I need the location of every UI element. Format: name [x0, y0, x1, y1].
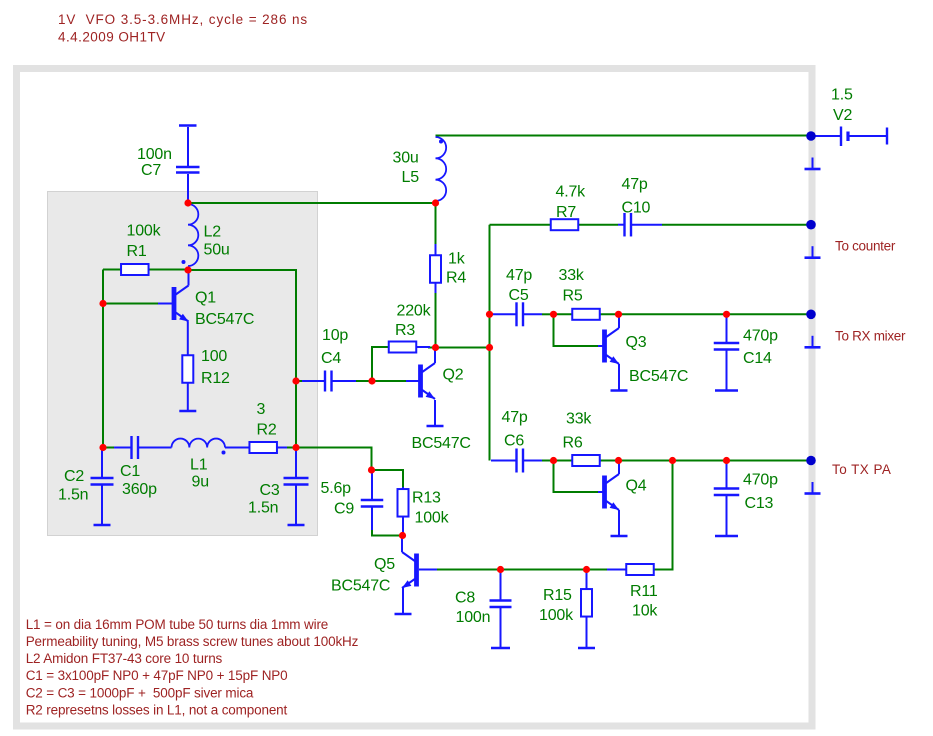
wire C7 node down is inductor; wire right from dot 188,270 to x296 and down to LC rail [191, 270, 296, 445]
node counter port [806, 220, 816, 230]
wire R2 right to C3 node [287, 447, 296, 449]
value label 47p [506, 267, 532, 284]
transistor Q4 [605, 474, 620, 510]
svg-text:10k: 10k [632, 603, 658, 620]
port marker below V2 supply port [805, 158, 821, 170]
wire R1 right to L2 bottom node [148, 269, 188, 271]
resistor R2 [225, 442, 287, 453]
svg-text:To RX mixer: To RX mixer [835, 329, 906, 344]
resistor R5 [572, 309, 601, 320]
wire C9 top node right to R13 corner [372, 470, 404, 487]
node C8 tap [497, 566, 504, 573]
value label V2 [833, 107, 852, 124]
outer frame border [17, 69, 813, 727]
svg-text:100k: 100k [415, 510, 450, 527]
value label 360p [122, 481, 157, 498]
value label 470p [743, 472, 778, 489]
node Q2 base / R3 junction [368, 377, 375, 384]
wire Q4 collector up [618, 462, 620, 474]
capacitor C2 [91, 449, 114, 525]
wire TX line to port [619, 460, 809, 462]
value label C10 [622, 200, 651, 217]
node C5 tap [486, 311, 493, 318]
svg-text:47p: 47p [622, 176, 648, 193]
wire Q4 base drive [554, 461, 599, 493]
svg-text:C8: C8 [455, 590, 475, 607]
value label 100k [127, 223, 162, 240]
wire LC bottom rail C2 to C1 [103, 447, 114, 449]
inductor L5 [436, 137, 447, 201]
svg-text:47p: 47p [502, 409, 528, 426]
ground below C13 [715, 534, 738, 536]
resistor R3 [389, 342, 430, 353]
value label L2 [204, 224, 222, 241]
wire Q4 base lead [598, 491, 603, 493]
port marker below RX mixer port [805, 336, 821, 348]
svg-text:470p: 470p [743, 328, 778, 345]
wire R5 node to R5 box [554, 313, 573, 315]
ground below Q3 [611, 364, 628, 391]
svg-text:R5: R5 [563, 288, 583, 305]
value label 470p [743, 328, 778, 345]
wire Q5 base lead [419, 569, 437, 571]
transistor Q2 [421, 363, 436, 399]
value label R3 [395, 322, 415, 339]
svg-text:C4: C4 [321, 350, 341, 367]
node C13 tap [723, 457, 730, 464]
capacitor C1 [114, 436, 152, 459]
svg-text:To counter: To counter [835, 239, 896, 254]
svg-text:L2: L2 [204, 224, 222, 241]
capacitor C5 [491, 302, 542, 326]
value label BC547C [195, 311, 254, 328]
svg-text:C10: C10 [622, 200, 651, 217]
transistor Q5 [402, 552, 417, 588]
wire R11 left to Q5 base rail [607, 569, 627, 571]
value label 4.7k [556, 184, 587, 201]
wire Q2 collector up [434, 350, 436, 364]
svg-text:100n: 100n [137, 146, 172, 163]
value label Q5 [374, 556, 395, 573]
wire C9 bottom to Q5 collector node [372, 530, 400, 536]
wire R4 top from L5 node [435, 205, 437, 244]
svg-text:BC547C: BC547C [629, 368, 688, 385]
battery V2 [814, 127, 887, 147]
ground below R12 [179, 383, 196, 411]
svg-text:L1 = on dia 16mm POM tube 50 t: L1 = on dia 16mm POM tube 50 turns dia 1… [26, 617, 328, 632]
value label 5.6p [321, 480, 352, 497]
node Q2 collector / R3 / R4 junction [432, 344, 439, 351]
wire RX line to port [619, 313, 809, 315]
resistor R4 [430, 244, 441, 293]
svg-text:R2 represetns losses in L1, no: R2 represetns losses in L1, not a compon… [26, 702, 288, 717]
value label Q3 [626, 334, 647, 351]
note line 6 [26, 702, 288, 717]
capacitor C3 [284, 449, 309, 525]
svg-text:To TX PA: To TX PA [832, 462, 891, 477]
value label 47p [502, 409, 528, 426]
title line 1 [58, 12, 308, 27]
node C14 tap [723, 311, 730, 318]
svg-text:R1: R1 [127, 243, 147, 260]
value label R4 [446, 270, 466, 287]
node R15 tap [583, 566, 590, 573]
value label R11 [630, 583, 658, 600]
note line 2 [26, 634, 359, 649]
resistor R6 [572, 455, 601, 466]
svg-text:50u: 50u [204, 242, 230, 259]
svg-text:220k: 220k [397, 303, 432, 320]
svg-text:9u: 9u [192, 474, 209, 491]
svg-text:1.5n: 1.5n [248, 500, 278, 517]
value label 100n [137, 146, 172, 163]
node C6 / R6 / Q4 base junction [550, 457, 557, 464]
svg-text:100k: 100k [127, 223, 162, 240]
value label 3 [257, 401, 266, 418]
value label C7 [141, 162, 161, 179]
transistor Q1 [174, 286, 189, 322]
svg-text:1k: 1k [448, 251, 466, 268]
svg-text:Permeability tuning, M5 brass: Permeability tuning, M5 brass screw tune… [26, 634, 359, 649]
svg-text:1V VFO 3.5-3.6MHz, cycle = 28: 1V VFO 3.5-3.6MHz, cycle = 286 ns [58, 12, 308, 27]
svg-text:Q5: Q5 [374, 556, 395, 573]
resistor R7 [551, 219, 579, 230]
wire C3 node to right and down to C9 node [296, 448, 372, 469]
svg-text:1.5: 1.5 [831, 87, 853, 104]
svg-text:33k: 33k [559, 267, 585, 284]
value label C5 [509, 287, 529, 304]
value label R5 [563, 288, 583, 305]
ground below R15 [578, 646, 595, 648]
wire C1 to L1 [145, 447, 172, 449]
transistor Q3 [605, 328, 620, 364]
value label 10p [322, 327, 348, 344]
value label C8 [455, 590, 475, 607]
note line 1 [26, 617, 328, 632]
svg-text:1.5n: 1.5n [58, 487, 88, 504]
resistor R11 [626, 564, 654, 575]
wire C4 left from x296 rail [296, 380, 302, 382]
capacitor C9 [361, 472, 384, 531]
wire Q5 collector up [401, 537, 403, 552]
svg-text:4.4.2009 OH1TV: 4.4.2009 OH1TV [58, 30, 166, 45]
svg-text:Q3: Q3 [626, 334, 647, 351]
value label 47p [622, 176, 648, 193]
wire R4 bottom to collector node [435, 293, 437, 345]
svg-text:R6: R6 [563, 435, 583, 452]
wire R6 out to TX line [601, 460, 619, 462]
value label C4 [321, 350, 341, 367]
value label Q2 [443, 367, 464, 384]
node V2 supply port [806, 131, 816, 141]
svg-text:C5: C5 [509, 287, 529, 304]
value label C1 [120, 463, 140, 480]
svg-text:L5: L5 [402, 169, 420, 186]
wire C5 right to R5 node [542, 313, 554, 315]
ground below C8 [491, 646, 510, 648]
wire base node to Q2 base [372, 380, 406, 382]
svg-text:3: 3 [257, 401, 266, 418]
svg-text:100k: 100k [539, 607, 574, 624]
node L2 bottom / R1 / Q1 collector junction [184, 266, 191, 273]
node R6 / Q4 collector junction [615, 457, 622, 464]
value label C2 [64, 468, 84, 485]
svg-text:C1: C1 [120, 463, 140, 480]
node R13 / C9 / Q5 collector junction [399, 532, 406, 539]
svg-text:L1: L1 [190, 457, 208, 474]
wire Q3 collector up [618, 316, 620, 328]
wire distribution vertical x489.5 [489, 225, 491, 461]
ground below Q5 [395, 588, 412, 614]
wire Q1 base lead [158, 303, 172, 305]
svg-text:BC547C: BC547C [412, 435, 471, 452]
port label To RX mixer [835, 329, 906, 344]
note line 4 [26, 668, 288, 683]
ground below Q2 [427, 424, 444, 426]
resistor R15 [581, 572, 592, 649]
svg-text:R13: R13 [412, 490, 441, 507]
ground below C3 [288, 524, 305, 525]
value label 10k [632, 603, 658, 620]
wire Q3 base lead [598, 345, 603, 347]
resistor R1 [121, 264, 149, 275]
svg-text:100: 100 [201, 348, 227, 365]
svg-text:47p: 47p [506, 267, 532, 284]
wire R6 node to R6 box [554, 460, 573, 462]
svg-text:R12: R12 [201, 370, 230, 387]
svg-text:R3: R3 [395, 322, 415, 339]
value label R6 [563, 435, 583, 452]
wire L5 bottom node to C7 node [191, 202, 433, 204]
value label Q4 [626, 478, 647, 495]
ground below Q4 [611, 510, 628, 536]
svg-text:V2: V2 [833, 107, 852, 124]
value label R15 [543, 587, 572, 604]
node R11 feed tap [669, 457, 676, 464]
svg-text:C13: C13 [745, 495, 774, 512]
node C5 / R5 / Q3 base junction [550, 311, 557, 318]
value label BC547C [412, 435, 471, 452]
value label C9 [334, 501, 354, 518]
svg-text:L2 Amidon FT37-43 core 10 turn: L2 Amidon FT37-43 core 10 turns [26, 651, 223, 666]
resistor R13 [398, 487, 409, 534]
node C3 / R2 junction [292, 444, 299, 451]
node TX PA port [806, 456, 816, 466]
value label R12 [201, 370, 230, 387]
svg-text:100n: 100n [456, 609, 491, 626]
ground below C2 [94, 524, 111, 525]
wire R5 out to RX line [601, 313, 619, 315]
value label 100n [456, 609, 491, 626]
value label C14 [743, 350, 772, 367]
wire Q1 collector up [188, 272, 190, 286]
svg-text:R15: R15 [543, 587, 572, 604]
wire R3 left lead down to base node [372, 347, 389, 379]
value label 220k [397, 303, 432, 320]
resistor R12 [182, 322, 193, 384]
svg-text:BC547C: BC547C [195, 311, 254, 328]
node L5 bottom junction [432, 199, 439, 206]
value label C6 [504, 433, 524, 450]
value label R1 [127, 243, 147, 260]
value label 1.5n [248, 500, 278, 517]
svg-text:C3: C3 [260, 482, 280, 499]
title line 2 [58, 30, 166, 45]
value label C3 [260, 482, 280, 499]
ground below C14 [715, 389, 738, 391]
capacitor C13 [714, 462, 740, 536]
value label 50u [204, 242, 230, 259]
svg-text:Q2: Q2 [443, 367, 464, 384]
svg-text:30u: 30u [393, 150, 419, 167]
value label 100k [539, 607, 574, 624]
port marker below counter port [805, 246, 821, 258]
value label 33k [559, 267, 585, 284]
svg-text:C2 = C3 = 1000pF + 500pF sive: C2 = C3 = 1000pF + 500pF siver mica [26, 685, 254, 700]
svg-text:Q1: Q1 [195, 290, 216, 307]
svg-text:33k: 33k [566, 411, 592, 428]
node C7/L2/V-rail junction [184, 199, 191, 206]
wire C10 to counter port [662, 224, 808, 226]
value label L5 [402, 169, 420, 186]
value label C13 [745, 495, 774, 512]
value label R2 [257, 422, 277, 439]
value label 100k [415, 510, 450, 527]
svg-text:C9: C9 [334, 501, 354, 518]
svg-text:C6: C6 [504, 433, 524, 450]
wire collector node right to distribution rail [436, 347, 490, 349]
svg-text:R2: R2 [257, 422, 277, 439]
wire R7 feed [490, 224, 552, 226]
port label To counter [835, 239, 896, 254]
wire C4 right to base node Q2 [356, 380, 372, 382]
value label BC547C [629, 368, 688, 385]
wire Q1 base from left rail [104, 303, 158, 305]
value label Q1 [195, 290, 216, 307]
pin terminal above C7 [179, 124, 197, 126]
svg-text:R11: R11 [630, 583, 658, 600]
wire R1 left horizontal [103, 269, 122, 271]
oscillator shaded box [48, 192, 318, 536]
wire R3 right to collector node [428, 347, 436, 349]
note line 3 [26, 651, 223, 666]
svg-text:C7: C7 [141, 162, 161, 179]
value label 100 [201, 348, 227, 365]
wire Q5 base rail [437, 569, 607, 571]
svg-text:C2: C2 [64, 468, 84, 485]
node C9 / R13 top junction [368, 466, 375, 473]
svg-text:Q4: Q4 [626, 478, 647, 495]
note line 5 [26, 685, 254, 700]
svg-text:BC547C: BC547C [331, 578, 390, 595]
wire TX line down to R11 [654, 461, 673, 570]
inductor L2 [182, 204, 199, 266]
value label 9u [192, 474, 209, 491]
svg-text:C1 = 3x100pF NP0 + 47pF NP0 +: C1 = 3x100pF NP0 + 47pF NP0 + 15pF NP0 [26, 668, 288, 683]
svg-text:C14: C14 [743, 350, 772, 367]
node collector rail tap [486, 344, 493, 351]
node RX mixer port [806, 310, 816, 320]
value label 1.5n [58, 487, 88, 504]
wire C6 right to R6 node [542, 460, 554, 462]
capacitor C14 [714, 316, 740, 391]
capacitor C6 [491, 449, 542, 473]
value label 33k [566, 411, 592, 428]
value label BC547C [331, 578, 390, 595]
value label 1.5 [831, 87, 853, 104]
capacitor C4 [302, 371, 356, 392]
wire Q2 base lead [406, 380, 419, 382]
node Q1 base / left rail junction [99, 300, 106, 307]
svg-text:360p: 360p [122, 481, 157, 498]
value label L1 [190, 457, 208, 474]
wire Q2 emitter down [434, 400, 436, 424]
svg-text:10p: 10p [322, 327, 348, 344]
svg-text:4.7k: 4.7k [556, 184, 587, 201]
inductor L1 [172, 439, 226, 455]
wire V+ rail from L5 top to V2 port [436, 135, 809, 137]
svg-text:R4: R4 [446, 270, 466, 287]
node C2 / LC rail junction [99, 444, 106, 451]
wire R7 to C10 [578, 224, 618, 226]
capacitor C10 [618, 213, 662, 237]
svg-text:R7: R7 [556, 204, 576, 221]
port label To TX PA [832, 462, 891, 477]
wire R1 left lead corner down left rail [102, 270, 104, 447]
capacitor C7 [176, 127, 200, 201]
node C4 tap on x296 rail [292, 377, 299, 384]
svg-text:5.6p: 5.6p [321, 480, 352, 497]
value label R7 [556, 204, 576, 221]
node R5 / Q3 collector junction [615, 311, 622, 318]
value label 1k [448, 251, 466, 268]
port marker below TX PA port [805, 482, 821, 494]
capacitor C8 [490, 572, 512, 649]
wire Q3 base drive [554, 314, 599, 346]
svg-text:470p: 470p [743, 472, 778, 489]
value label 30u [393, 150, 419, 167]
value label R13 [412, 490, 441, 507]
